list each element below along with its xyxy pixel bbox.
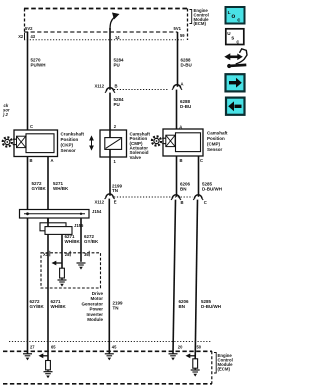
svg-text:(CKP): (CKP) <box>61 142 74 147</box>
svg-text:WH/BK: WH/BK <box>65 239 81 244</box>
svg-text:Position: Position <box>61 137 79 142</box>
svg-text:D-BU: D-BU <box>180 104 191 109</box>
svg-text:TN: TN <box>113 306 119 311</box>
svg-text:(ECM): (ECM) <box>194 21 207 26</box>
svg-text:B: B <box>30 158 33 163</box>
svg-text:GY/BK: GY/BK <box>30 304 45 309</box>
svg-text:45: 45 <box>112 345 117 350</box>
svg-text:5V1: 5V1 <box>174 26 182 31</box>
svg-text:(ECM): (ECM) <box>218 367 231 372</box>
svg-text:Position: Position <box>207 136 225 141</box>
svg-text:o: o <box>231 13 235 20</box>
svg-text:X112: X112 <box>95 84 105 89</box>
svg-text:D-BU: D-BU <box>181 63 192 68</box>
svg-text:PU: PU <box>114 62 120 67</box>
svg-text:GY/BK: GY/BK <box>84 239 99 244</box>
svg-text:A: A <box>181 82 184 87</box>
svg-text:BN: BN <box>180 187 187 192</box>
svg-text:43: 43 <box>31 34 36 39</box>
svg-text:GY/BK: GY/BK <box>32 186 47 191</box>
svg-text:5V2: 5V2 <box>25 26 33 31</box>
svg-text:Sensor: Sensor <box>207 147 223 152</box>
svg-text:B: B <box>115 84 118 89</box>
svg-text:E: E <box>114 199 117 204</box>
svg-text:Camshaft: Camshaft <box>207 131 228 136</box>
svg-text:X1: X1 <box>43 252 49 257</box>
svg-text:65: 65 <box>51 345 56 350</box>
svg-text:WH/BK: WH/BK <box>53 186 69 191</box>
svg-text:c: c <box>236 39 239 45</box>
svg-text:L: L <box>228 10 231 16</box>
svg-text:BN: BN <box>179 304 186 309</box>
svg-text:50: 50 <box>197 345 202 350</box>
svg-text:Module: Module <box>87 317 103 322</box>
svg-text:B: B <box>181 200 184 205</box>
svg-text:20: 20 <box>178 345 183 350</box>
svg-text:) 2: ) 2 <box>2 112 9 117</box>
svg-text:D-BU/WH: D-BU/WH <box>201 304 221 309</box>
svg-text:X112: X112 <box>95 199 105 204</box>
svg-text:PU: PU <box>114 102 120 107</box>
svg-text:TN: TN <box>112 188 118 193</box>
svg-text:59: 59 <box>180 33 185 38</box>
svg-text:c: c <box>237 18 240 24</box>
svg-text:A: A <box>51 158 54 163</box>
svg-text:Crankshaft: Crankshaft <box>61 132 85 137</box>
svg-text:C: C <box>204 200 207 205</box>
svg-text:28: 28 <box>65 252 70 257</box>
svg-text:J155: J155 <box>74 223 84 228</box>
svg-text:C: C <box>200 158 203 163</box>
svg-text:X2: X2 <box>18 34 24 39</box>
svg-text:Valve: Valve <box>130 155 142 160</box>
svg-text:27: 27 <box>30 345 35 350</box>
svg-text:Sensor: Sensor <box>61 148 77 153</box>
svg-text:35: 35 <box>84 252 89 257</box>
svg-text:s: s <box>231 35 234 41</box>
svg-text:D-BU/WH: D-BU/WH <box>202 187 222 192</box>
svg-text:WH/BK: WH/BK <box>51 304 67 309</box>
svg-text:C: C <box>30 124 33 129</box>
svg-text:B: B <box>180 158 183 163</box>
svg-text:(CMP): (CMP) <box>207 141 220 146</box>
svg-text:PU/WH: PU/WH <box>31 62 46 67</box>
svg-text:14: 14 <box>115 35 120 40</box>
svg-text:J154: J154 <box>92 209 102 214</box>
